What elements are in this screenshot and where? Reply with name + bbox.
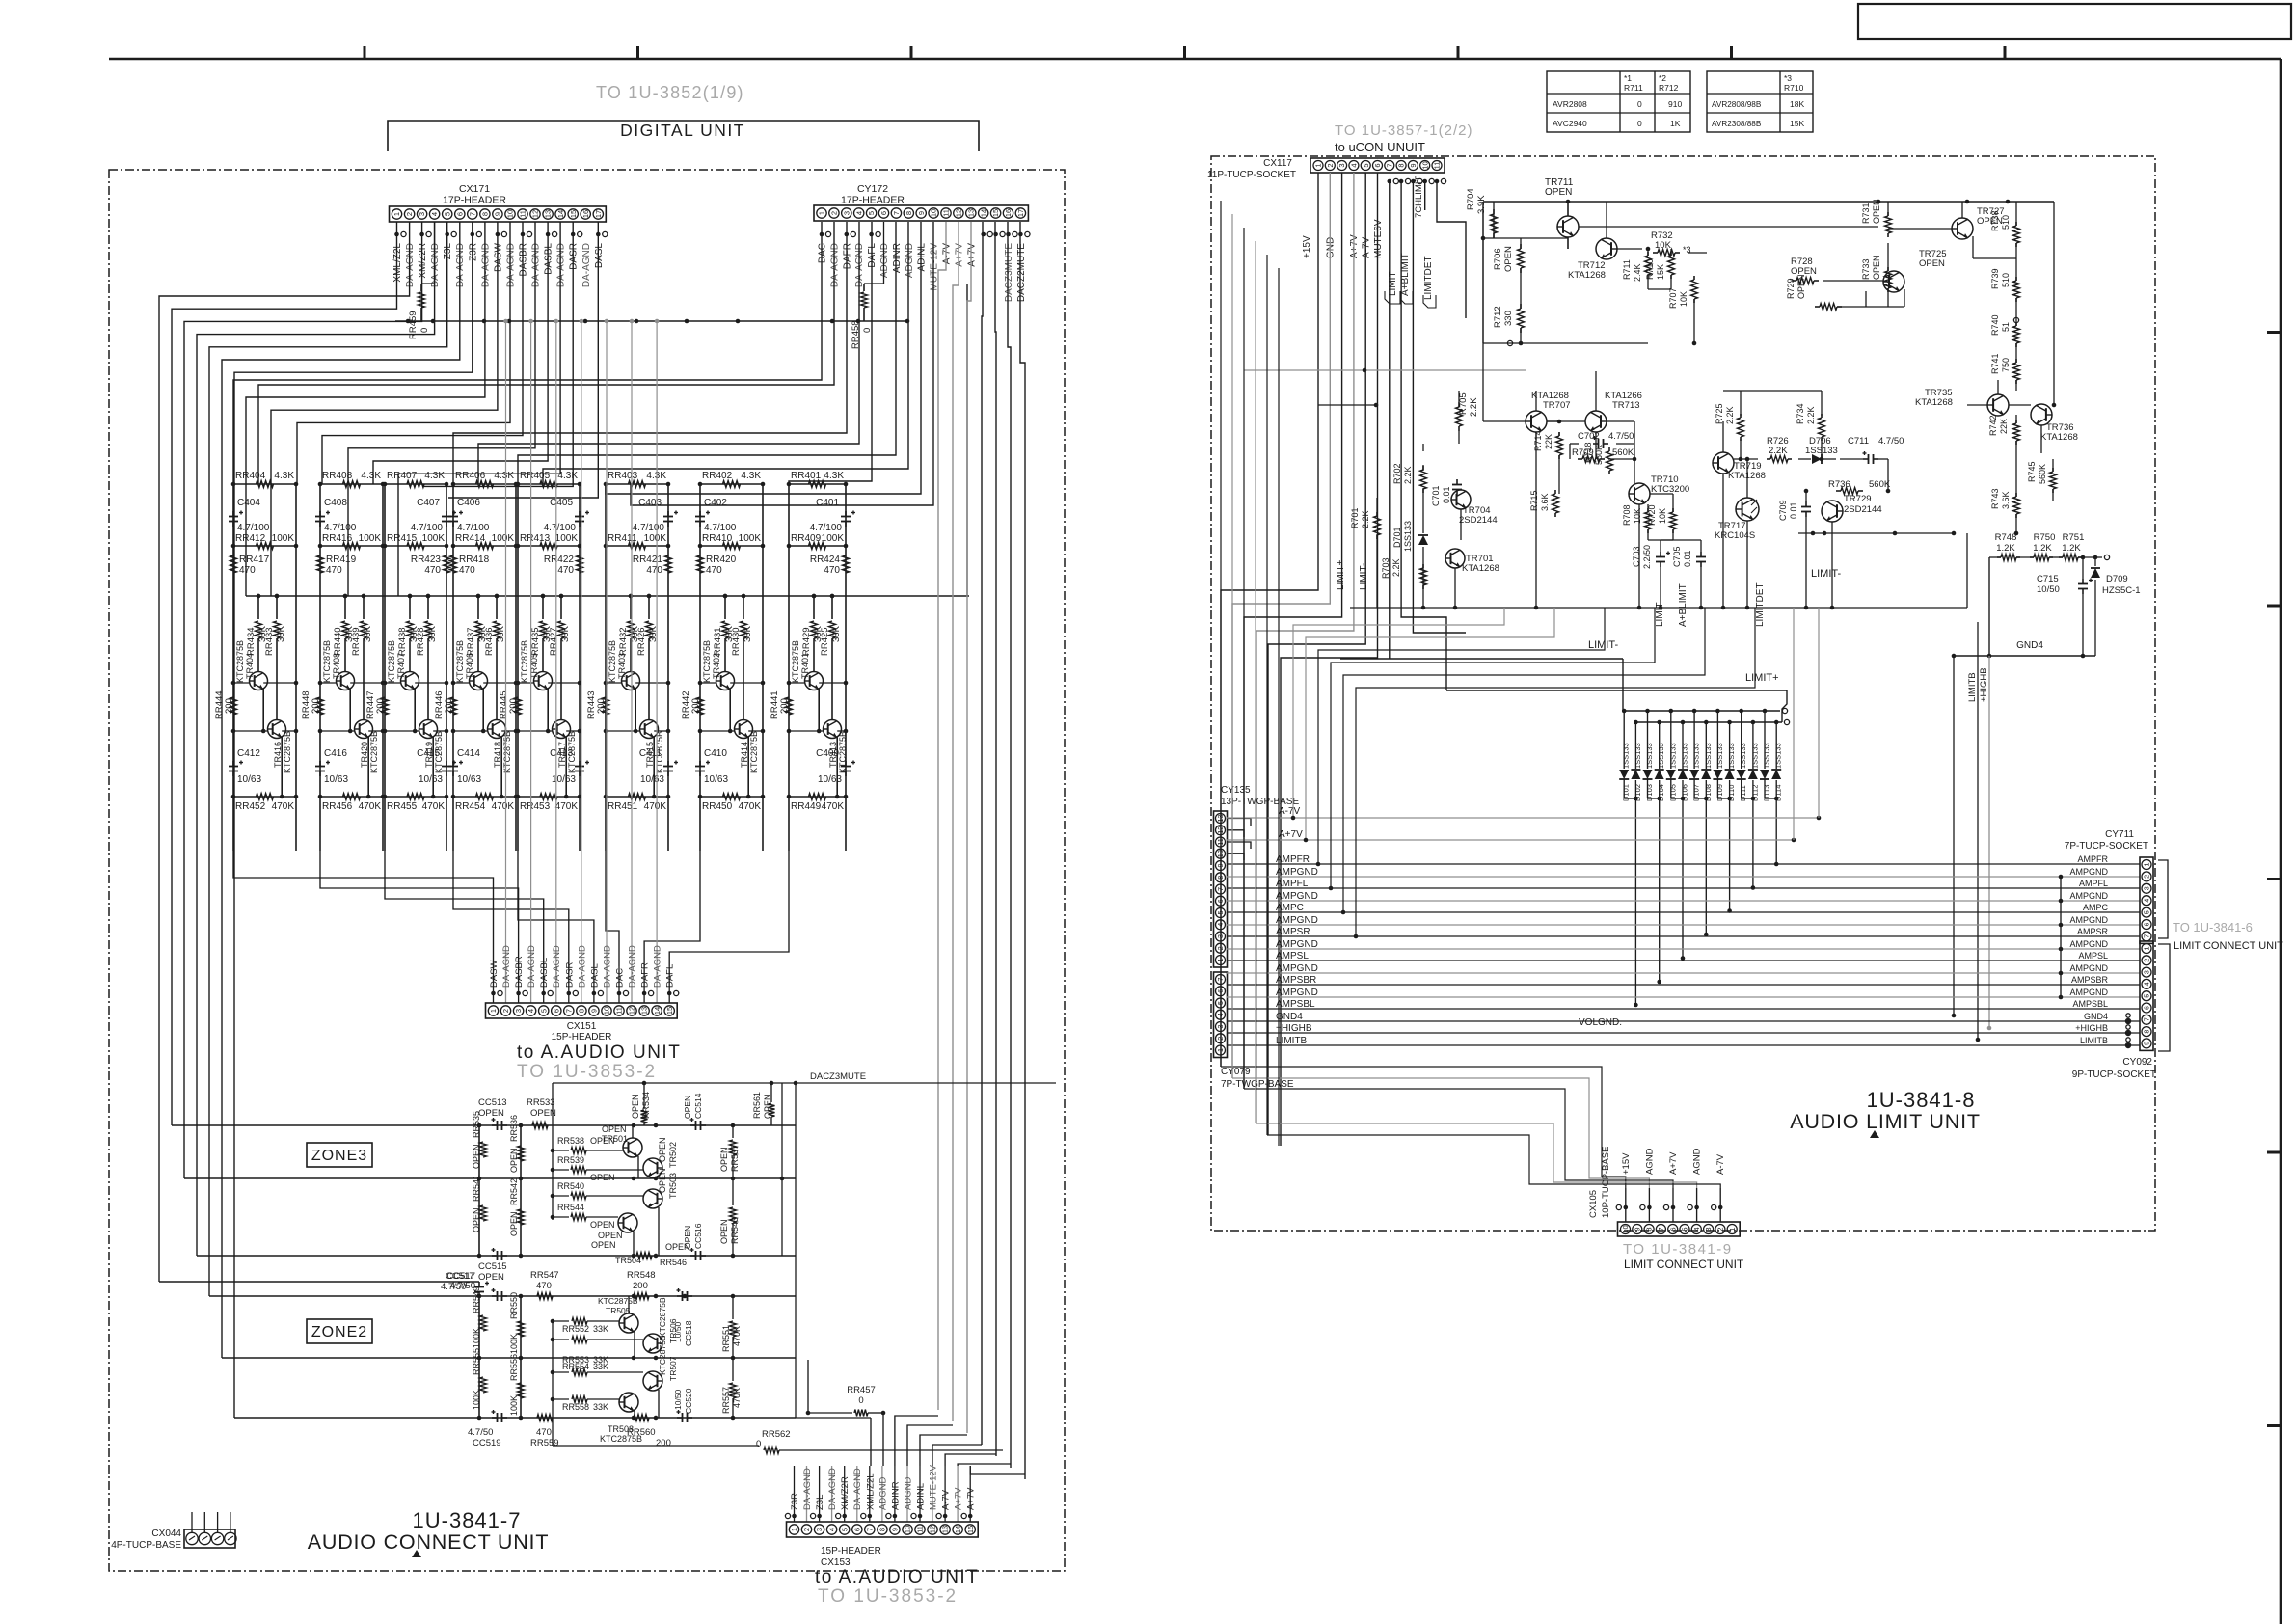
svg-text:+HIGHB: +HIGHB [1979, 667, 1989, 702]
svg-text:LIMITB: LIMITB [2080, 1036, 2108, 1045]
net GND4 vertical [1952, 656, 1957, 1017]
svg-text:560K: 560K [2038, 464, 2047, 484]
svg-text:RR550: RR550 [509, 1292, 519, 1319]
transistor TR505 KTC2875B [598, 1296, 638, 1358]
svg-text:RR555: RR555 [472, 1348, 481, 1375]
svg-text:ADINL: ADINL [916, 1483, 927, 1510]
svg-text:RR554: RR554 [562, 1362, 589, 1371]
svg-text:10K: 10K [1658, 508, 1667, 524]
svg-text:C405: C405 [550, 498, 573, 508]
svg-text:9: 9 [2142, 1042, 2150, 1045]
svg-text:2.2K: 2.2K [1361, 510, 1370, 528]
wire bus CX171 fanout staircase left [159, 222, 473, 1418]
resistor R741 750 [1990, 353, 2020, 384]
svg-text:CC518: CC518 [684, 1320, 693, 1346]
svg-text:A+BLIMIT: A+BLIMIT [1678, 583, 1688, 627]
svg-text:AMPGND: AMPGND [2069, 939, 2108, 949]
svg-text:C409: C409 [816, 748, 839, 759]
svg-text:51: 51 [2001, 322, 2011, 332]
net DACZ3MUTE [553, 1071, 1056, 1125]
svg-text:C404: C404 [237, 498, 260, 508]
svg-text:10/63: 10/63 [818, 774, 842, 785]
svg-text:XML/Z2L: XML/Z2L [392, 243, 403, 283]
resistor RR419 470 [317, 555, 357, 576]
resistor RR549 100K [472, 1286, 487, 1348]
resistor R725 2.2K [1715, 403, 1744, 441]
svg-text:17P-HEADER: 17P-HEADER [443, 195, 506, 206]
svg-text:+HIGHB: +HIGHB [2075, 1023, 2108, 1033]
svg-text:RR425: RR425 [820, 627, 830, 656]
transistor TR403 KTC2875B [604, 640, 671, 733]
svg-text:RR456: RR456 [322, 801, 353, 812]
wire left bundle feeds ZONE blocks [159, 1125, 479, 1418]
svg-text:DA-AGND: DA-AGND [405, 243, 416, 287]
svg-text:KTC2875B: KTC2875B [749, 731, 759, 773]
transistor TR735 KTA1268 [1915, 388, 2009, 416]
svg-text:AVR2808: AVR2808 [1553, 99, 1587, 109]
svg-text:A+7V: A+7V [954, 1487, 964, 1510]
svg-text:1: 1 [2142, 947, 2150, 951]
cell rails column 2 [320, 484, 383, 851]
label DIGITAL UNIT [620, 121, 745, 140]
resistor RR561 OPEN [752, 1083, 775, 1125]
svg-text:CC520: CC520 [684, 1388, 693, 1414]
svg-text:ZONE2: ZONE2 [311, 1324, 367, 1340]
svg-text:33K: 33K [363, 625, 373, 642]
svg-text:RR542: RR542 [509, 1178, 519, 1205]
svg-text:5: 5 [1681, 1227, 1689, 1231]
svg-text:1.2K: 1.2K [1996, 543, 2015, 554]
wire diode pair 3 drop [1681, 798, 1686, 961]
svg-text:RR562: RR562 [762, 1429, 791, 1440]
label LIMIT CONNECT UNIT right [2174, 940, 2283, 952]
svg-text:RR418: RR418 [459, 555, 490, 565]
svg-text:ADGND: ADGND [878, 1477, 888, 1510]
svg-text:TR402: TR402 [712, 653, 721, 679]
svg-text:DA-AGND: DA-AGND [827, 1468, 838, 1510]
svg-text:33K: 33K [496, 625, 506, 642]
audio connect unit border [109, 170, 1065, 1571]
wires middle right circuit [1244, 370, 1967, 609]
resistor R742 22K [1988, 415, 2020, 445]
svg-text:R712: R712 [1493, 306, 1503, 328]
wire ZONE blocks right edge [782, 1125, 796, 1418]
svg-text:Z3R: Z3R [790, 1493, 800, 1510]
resistor RR426 33K [636, 594, 659, 719]
svg-text:4.7/100: 4.7/100 [237, 523, 270, 533]
svg-text:TR502: TR502 [668, 1142, 678, 1168]
resistor R715 3.6K [1529, 490, 1559, 517]
resistor R714 22K [1533, 430, 1563, 459]
resistor R704 3.9K [1466, 188, 1498, 238]
svg-text:A+7V: A+7V [1349, 234, 1360, 258]
svg-text:1SS133: 1SS133 [1403, 521, 1413, 552]
svg-text:100K: 100K [472, 1328, 481, 1348]
svg-text:200: 200 [596, 698, 607, 714]
svg-text:RR417: RR417 [239, 555, 270, 565]
svg-text:R741: R741 [1990, 353, 2000, 374]
svg-text:OPEN: OPEN [509, 1148, 519, 1173]
svg-text:4: 4 [1350, 163, 1359, 167]
connector CY711 7P-TUCP-SOCKET [2065, 829, 2153, 943]
svg-text:R711: R711 [1624, 83, 1643, 93]
svg-text:KTC2875B: KTC2875B [235, 640, 245, 683]
svg-text:DIGITAL UNIT: DIGITAL UNIT [620, 121, 745, 140]
diode D04 1SS133 (pair right) [1655, 720, 1666, 801]
svg-text:33K: 33K [560, 625, 571, 642]
svg-text:LIMIT CONNECT UNIT: LIMIT CONNECT UNIT [2174, 940, 2283, 952]
svg-text:CC519: CC519 [473, 1438, 501, 1448]
diode D14 1SS133 (pair right) [1771, 720, 1783, 801]
svg-text:AMPSBR: AMPSBR [1276, 975, 1316, 986]
resistor RR554 33K [551, 1362, 643, 1376]
resistor RR414 100K [451, 533, 519, 550]
svg-text:1K: 1K [1670, 119, 1681, 128]
transistor TR711 OPEN [1545, 177, 1579, 249]
svg-text:RR557: RR557 [721, 1387, 731, 1414]
wire diode pair 7 drop [1774, 798, 1779, 866]
transistor TR504 OPEN [591, 1196, 641, 1265]
svg-text:12: 12 [531, 210, 540, 218]
svg-text:+15V: +15V [1302, 235, 1312, 258]
svg-text:LIMITB: LIMITB [1967, 672, 1978, 702]
resistor RR537 OPEN [719, 1123, 740, 1181]
resistor RR542 OPEN [509, 1178, 525, 1236]
svg-text:C414: C414 [457, 748, 480, 759]
svg-text:LIMIT+: LIMIT+ [1336, 559, 1346, 590]
svg-text:470K: 470K [272, 801, 295, 812]
resistor R706 OPEN [1493, 244, 1525, 273]
transistor TR713 KTA1266 [1585, 391, 1642, 432]
wire diode pair 1 drop [1634, 798, 1638, 1007]
svg-text:LIMITDET: LIMITDET [1755, 582, 1766, 627]
svg-text:*2: *2 [1659, 73, 1666, 83]
svg-text:2: 2 [2142, 875, 2150, 879]
capacitor C703 2.2/50 [1632, 545, 1670, 569]
svg-text:100K: 100K [509, 1334, 519, 1354]
resistor RR562 0 [756, 1429, 1003, 1454]
svg-text:RR459: RR459 [408, 311, 419, 339]
svg-text:4: 4 [2142, 899, 2150, 903]
svg-text:100K: 100K [739, 533, 762, 544]
svg-text:R710: R710 [1645, 258, 1655, 280]
wires right circuit base rows [1445, 202, 2056, 609]
svg-text:RR403: RR403 [608, 471, 638, 481]
svg-text:8: 8 [1645, 1227, 1654, 1231]
page right border line [2280, 59, 2282, 1624]
svg-text:9: 9 [891, 1528, 900, 1531]
svg-text:CY079: CY079 [1221, 1067, 1251, 1077]
resistor R718 560K [1583, 442, 1613, 474]
capacitor C711 4.7/50 [1848, 436, 1904, 464]
svg-text:11: 11 [615, 1007, 624, 1015]
svg-text:OPEN: OPEN [509, 1211, 519, 1236]
svg-text:CY172: CY172 [857, 183, 888, 195]
resistor RR423 470 [411, 555, 450, 576]
svg-text:7P-TUCP-SOCKET: 7P-TUCP-SOCKET [2065, 841, 2148, 852]
svg-text:AGND: AGND [1692, 1148, 1703, 1175]
wire bus CY172 right drop bundle [938, 222, 1025, 1479]
resistor R720 10K [1647, 504, 1677, 533]
resistor RR406 4.3K [451, 471, 519, 488]
resistor RR428 33K [416, 594, 438, 719]
wires top right circuit [1481, 202, 2016, 391]
svg-text:A-7V: A-7V [1715, 1153, 1726, 1175]
svg-text:15: 15 [991, 209, 1000, 217]
svg-text:DASBR: DASBR [519, 243, 529, 276]
svg-text:GND4: GND4 [2016, 640, 2043, 651]
label to A.AUDIO UNIT (CX151) [517, 1042, 681, 1082]
svg-text:D106: D106 [1681, 784, 1689, 801]
svg-text:R702: R702 [1392, 463, 1402, 484]
svg-text:DAFR: DAFR [640, 962, 651, 988]
svg-text:DACZ2MUTE: DACZ2MUTE [1016, 243, 1027, 302]
resistor R748 1.2K [1995, 532, 2020, 561]
svg-text:KTC2875B: KTC2875B [791, 640, 800, 683]
svg-text:10/63: 10/63 [552, 774, 576, 785]
svg-text:LIMIT-: LIMIT- [1588, 639, 1619, 651]
connector CX153 15P-HEADER [787, 1522, 979, 1568]
svg-text:D108: D108 [1704, 784, 1713, 801]
svg-text:OPEN: OPEN [1545, 187, 1572, 198]
svg-text:R739: R739 [1990, 268, 2000, 289]
svg-text:2.2K: 2.2K [1403, 466, 1413, 484]
wire DA-AGND verticals to CX151 [503, 319, 659, 966]
resistor RR435 33K [530, 594, 553, 671]
svg-text:A+7V: A+7V [966, 1487, 977, 1510]
svg-text:RR427: RR427 [549, 627, 559, 656]
AMPGND common vertical [2059, 875, 2064, 1000]
svg-text:12: 12 [929, 1526, 937, 1533]
svg-text:13: 13 [941, 1526, 950, 1533]
diode D09 1SS133 (pair left) [1713, 709, 1729, 801]
svg-text:10K: 10K [1633, 508, 1642, 524]
resistor RR447 200 [365, 690, 389, 719]
svg-text:XML/Z2L: XML/Z2L [865, 1473, 876, 1510]
svg-text:5: 5 [2142, 994, 2150, 998]
svg-text:D113: D113 [1763, 785, 1771, 801]
svg-text:RR402: RR402 [702, 471, 733, 481]
option table R710 values [1707, 71, 1813, 132]
label LIMIT CONNECT UNIT bottom [1624, 1258, 1744, 1271]
svg-text:RR407: RR407 [387, 471, 418, 481]
unit title 1U-3841-7 [308, 1508, 550, 1557]
svg-text:KTC2875B: KTC2875B [283, 731, 292, 773]
svg-text:C415: C415 [417, 748, 440, 759]
svg-text:17: 17 [1016, 209, 1025, 217]
svg-text:22K: 22K [1544, 434, 1553, 449]
svg-text:10/63: 10/63 [640, 774, 664, 785]
label TO 1U-3852(1/9) [596, 83, 744, 102]
label to A.AUDIO UNIT (CX153) [815, 1567, 979, 1607]
cell rails column 6 [606, 484, 668, 851]
wire left bundle right unit verticals [1221, 201, 1279, 1146]
capacitor C409 10/63 [816, 748, 855, 785]
svg-text:KTC2875B: KTC2875B [658, 1335, 667, 1375]
svg-text:R743: R743 [1990, 488, 2000, 509]
connector CX117 11P-TUCP-SOCKET [1207, 158, 1445, 180]
svg-text:9: 9 [917, 211, 926, 215]
svg-text:DA-AGND: DA-AGND [552, 945, 562, 988]
svg-text:470: 470 [239, 565, 256, 576]
svg-text:3: 3 [815, 1528, 824, 1531]
svg-text:100K: 100K [644, 533, 667, 544]
svg-text:DA-AGND: DA-AGND [852, 1468, 863, 1510]
svg-text:9: 9 [590, 1009, 599, 1013]
svg-text:100K: 100K [422, 533, 446, 544]
svg-text:TO 1U-3853-2: TO 1U-3853-2 [517, 1062, 657, 1082]
svg-text:33K: 33K [427, 625, 438, 642]
capacitor C416 10/63 [315, 748, 348, 785]
svg-text:KTC2875B: KTC2875B [502, 731, 512, 773]
transistor TR507 KTC2875B [643, 1335, 678, 1418]
svg-text:LIMIT: LIMIT [1655, 602, 1665, 627]
resistor RR557 470K [721, 1358, 742, 1418]
svg-text:RR431: RR431 [713, 627, 723, 656]
svg-text:10: 10 [1420, 161, 1429, 169]
svg-text:A-7V: A-7V [941, 1489, 952, 1510]
unit title 1U-3841-8 [1790, 1088, 1981, 1138]
resistor RR553 33K [551, 1337, 643, 1366]
svg-text:RR561: RR561 [752, 1092, 762, 1119]
svg-text:0.01: 0.01 [1442, 486, 1451, 503]
svg-text:C413: C413 [550, 748, 573, 759]
svg-text:AMPGND: AMPGND [2069, 867, 2108, 877]
svg-text:OPEN: OPEN [1919, 258, 1945, 269]
svg-text:AMPSL: AMPSL [1276, 951, 1309, 961]
connector CY172 17P-HEADER [814, 183, 1028, 221]
svg-text:2.2K: 2.2K [1469, 397, 1479, 417]
connector CX171 17P-HEADER [390, 183, 607, 222]
capacitor C702 4.7/50 [1578, 431, 1634, 448]
diode array rails [1623, 708, 1790, 724]
svg-text:33K: 33K [743, 625, 753, 642]
resistor RR543 OPEN [719, 1178, 740, 1258]
svg-text:470: 470 [424, 565, 441, 576]
svg-text:2: 2 [830, 211, 839, 215]
resistor RR404 4.3K [231, 471, 299, 488]
svg-text:3: 3 [418, 212, 426, 216]
svg-text:AMPFR: AMPFR [1276, 854, 1310, 865]
ZONE2 inner box wires [553, 1321, 759, 1446]
svg-text:CX044: CX044 [151, 1529, 181, 1539]
label TO 1U-3841-9 [1623, 1241, 1733, 1258]
transistor TR712 KTA1268 [1568, 238, 1617, 281]
svg-text:RR405: RR405 [520, 471, 551, 481]
svg-text:OPEN: OPEN [590, 1136, 615, 1146]
resistor RR418 470 [450, 555, 490, 576]
svg-text:5: 5 [840, 1528, 849, 1531]
resistor RR455 470K [383, 794, 449, 813]
capacitor CC518 10/50 [673, 1288, 693, 1346]
svg-text:C416: C416 [324, 748, 347, 759]
svg-text:1SS133: 1SS133 [1763, 743, 1771, 769]
svg-text:2: 2 [501, 1009, 510, 1013]
svg-text:KRC104S: KRC104S [1715, 530, 1755, 541]
resistor R740 51 [1990, 314, 2020, 347]
svg-text:R734: R734 [1796, 403, 1805, 424]
svg-text:LIMIT+: LIMIT+ [1745, 672, 1779, 684]
svg-text:15: 15 [966, 1526, 975, 1533]
resistor RR551 470K [721, 1296, 742, 1358]
top rail wire right circuit [1483, 200, 2054, 204]
transistor TR719 KTA1268 [1713, 452, 1766, 481]
svg-text:4.7/100: 4.7/100 [544, 523, 577, 533]
svg-text:RR534: RR534 [641, 1092, 651, 1119]
transistor TR717 KRC104S [1715, 498, 1759, 541]
transistor TR725 OPEN [1883, 249, 1947, 292]
svg-text:RR428: RR428 [416, 627, 426, 656]
svg-text:910: 910 [1668, 99, 1682, 109]
CX117 pin stubs [1388, 178, 1446, 183]
svg-text:3: 3 [1704, 1227, 1713, 1231]
resistor RR535 OPEN [472, 1111, 487, 1169]
svg-text:DASBR: DASBR [514, 956, 525, 988]
svg-text:1: 1 [790, 1528, 798, 1531]
svg-text:C709: C709 [1778, 500, 1788, 521]
wire diode pair 5 drop [1727, 798, 1732, 913]
svg-text:RR454: RR454 [455, 801, 486, 812]
wire bus CX117 limit signals down [1390, 181, 1466, 690]
svg-text:*1: *1 [1624, 73, 1632, 83]
svg-text:470K: 470K [492, 801, 515, 812]
svg-text:7: 7 [2142, 1017, 2150, 1021]
svg-text:R701: R701 [1350, 507, 1360, 528]
svg-text:470: 470 [326, 565, 342, 576]
resistor RR454 470K [451, 794, 519, 813]
resistor RR539 OPEN [551, 1155, 643, 1182]
svg-text:2: 2 [802, 1528, 811, 1531]
svg-text:15P-HEADER: 15P-HEADER [821, 1546, 881, 1556]
svg-text:C402: C402 [704, 498, 727, 508]
transistor TR710 KTC3200 [1629, 474, 1689, 504]
svg-text:AMPGND: AMPGND [1276, 891, 1318, 902]
svg-text:DASL: DASL [589, 963, 600, 988]
svg-text:DA-AGND: DA-AGND [480, 243, 491, 287]
svg-text:RR546: RR546 [660, 1258, 687, 1267]
svg-text:8: 8 [1397, 163, 1406, 167]
resistor RR422 470 [544, 555, 583, 576]
svg-text:1U-3841-8: 1U-3841-8 [1867, 1088, 1976, 1112]
svg-text:CC517: CC517 [446, 1271, 474, 1282]
svg-text:to A.AUDIO UNIT: to A.AUDIO UNIT [815, 1567, 979, 1587]
svg-text:RR543: RR543 [730, 1217, 740, 1244]
wire diode pair 4 drop [1704, 798, 1709, 936]
svg-text:510: 510 [2001, 273, 2011, 287]
transistor TR418 KTC2875B [451, 720, 519, 799]
ZONE3 block rails [424, 1123, 796, 1259]
svg-text:MUTE-12V: MUTE-12V [929, 1464, 939, 1510]
cell rails column 4 [453, 484, 516, 851]
resistor RR533 OPEN [527, 1097, 556, 1129]
svg-text:R750: R750 [2034, 532, 2056, 543]
GND4 row wires [1989, 555, 2110, 559]
svg-text:TR503: TR503 [668, 1173, 678, 1199]
svg-text:RR401: RR401 [791, 471, 822, 481]
connector CY079 7P-TWGP-BASE [1214, 972, 1294, 1090]
resistor RR437 33K [466, 594, 488, 671]
diode D03 1SS133 (pair left) [1643, 709, 1660, 801]
svg-text:RR432: RR432 [618, 627, 629, 656]
svg-text:TR713: TR713 [1612, 400, 1640, 411]
svg-text:OPEN: OPEN [478, 1108, 504, 1119]
svg-text:C406: C406 [457, 498, 480, 508]
svg-text:OPEN: OPEN [1503, 246, 1514, 272]
svg-text:AMPGND: AMPGND [1276, 939, 1318, 950]
svg-text:1SS133: 1SS133 [1634, 743, 1642, 769]
wire GND4 box to AMPFR area [2083, 656, 2085, 864]
svg-text:AVR2808/98B: AVR2808/98B [1712, 100, 1762, 109]
